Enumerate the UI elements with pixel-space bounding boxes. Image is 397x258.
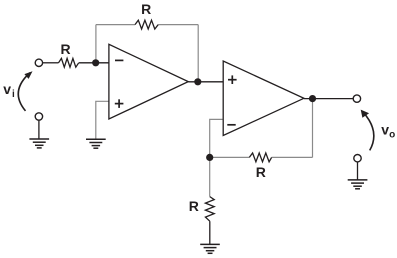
- junction node C (R3/R4 tap to U2 inverting input): [206, 154, 213, 161]
- wire: node C to R3 left: [210, 156, 250, 158]
- terminal: v_o upper: [353, 95, 360, 102]
- wire: v_i lower terminal to ground: [38, 120, 40, 139]
- v_o polarity arrow: [361, 110, 374, 151]
- svg-text:R: R: [256, 164, 266, 180]
- ground (v_o lower terminal): [348, 180, 368, 189]
- wire: R3 right to output vertical: [272, 156, 313, 158]
- wire: U2 output to output terminal: [304, 98, 353, 100]
- op-amp U2: [223, 61, 304, 136]
- v_i polarity arrow: [18, 71, 32, 111]
- wire: R1 to U1 inverting input (through node A): [79, 62, 109, 64]
- wire: feedback right vertical down to U1 output: [197, 25, 199, 82]
- ground (v_i lower terminal): [29, 139, 49, 148]
- wire: feedback top horizontal left of R2: [96, 24, 135, 26]
- resistor R3 (value R, feedback of U2): [249, 153, 271, 162]
- wire: U1 + input to ground: [96, 101, 109, 139]
- wire: feedback top horizontal right of R2: [158, 24, 198, 26]
- wire: feedback left vertical (node A up): [95, 25, 97, 63]
- U2 minus sign (inverting pin): [227, 124, 235, 126]
- wire: v_o lower terminal to ground: [357, 162, 359, 180]
- svg-text:R: R: [141, 1, 151, 17]
- wire: vertical from R3 row up to node D: [312, 99, 314, 158]
- svg-text:R: R: [60, 41, 70, 57]
- U2 plus sign (non-inverting pin): [228, 79, 237, 81]
- terminal: v_i upper: [35, 59, 42, 66]
- op-amp U1: [109, 44, 188, 119]
- terminal: v_o lower: [354, 155, 361, 162]
- resistor R4 (value R, to ground): [205, 197, 214, 222]
- U1 minus sign (inverting pin): [115, 59, 123, 61]
- wire: U2 - input loop to node C: [210, 119, 223, 157]
- wire: input terminal to R1: [43, 62, 59, 64]
- resistor R1 (value R): [59, 58, 79, 67]
- wire: U1 output to U2 non-inverting input: [188, 81, 223, 83]
- ground (bottom, below R4): [200, 244, 220, 253]
- resistor R2 (value R, feedback of U1): [135, 20, 158, 29]
- terminal: v_i lower: [35, 113, 42, 120]
- junction node A (U1 inverting input): [92, 59, 99, 66]
- junction node B (U1 output): [194, 78, 201, 85]
- wire: node C down to R4 top: [209, 157, 211, 196]
- svg-text:R: R: [189, 198, 199, 214]
- U1 plus sign (non-inverting pin): [115, 103, 124, 105]
- junction node D (U2 output): [309, 95, 316, 102]
- ground (U1 non-inverting input): [86, 139, 106, 148]
- wire: R4 bottom to ground: [209, 221, 211, 244]
